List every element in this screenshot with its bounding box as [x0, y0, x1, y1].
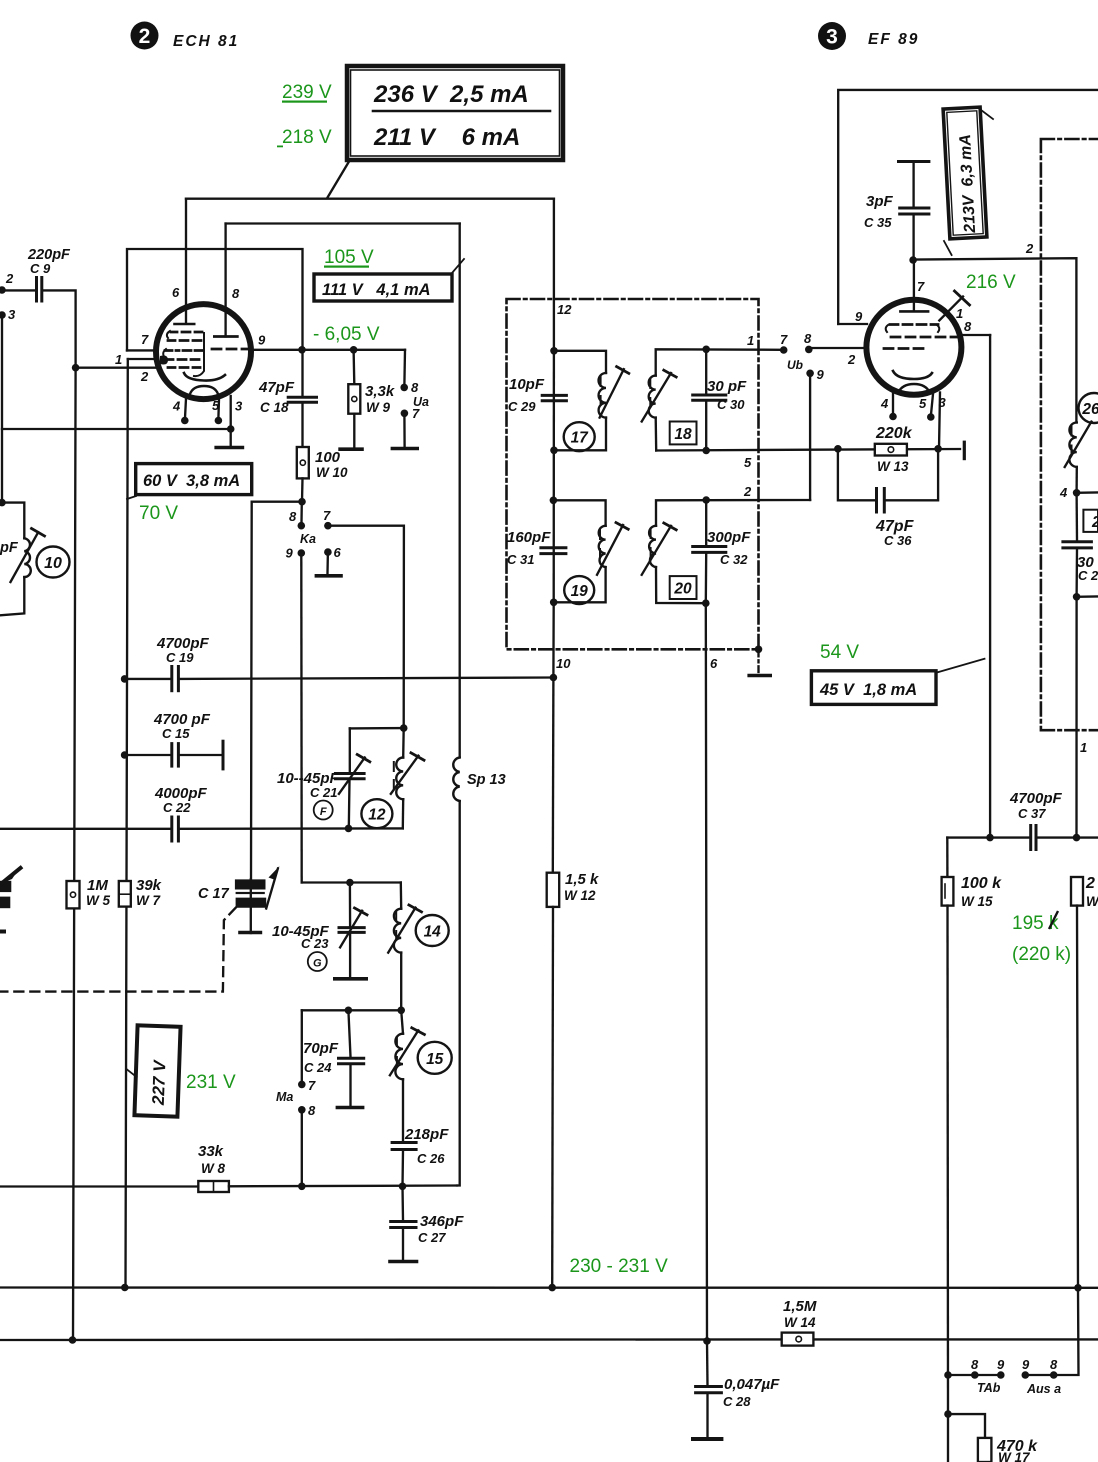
resistor W17 470k (clipped) — [948, 1414, 1038, 1462]
IF transformer shield box (dash-dot) — [507, 299, 759, 649]
svg-text:8: 8 — [1050, 1357, 1058, 1372]
wire: anode net to right IF box — [913, 258, 1076, 422]
svg-text:10: 10 — [556, 656, 571, 671]
wire: pin4 stub to right edge — [1077, 491, 1098, 494]
node circle F — [314, 801, 333, 820]
capacitor C27 346pF — [390, 1186, 464, 1261]
node box 20 — [670, 576, 697, 599]
IF2 shield box (dash-dot, right edge) — [1041, 139, 1098, 730]
capacitor C32 300pF — [693, 500, 751, 603]
svg-text:Ma: Ma — [276, 1090, 293, 1104]
ECH81 pin 3 lead — [230, 396, 232, 429]
node: coil 12 top — [400, 724, 408, 732]
node: tank19 top — [550, 497, 558, 505]
node: IF grid rail joins y=678 wire — [550, 674, 558, 682]
wire: IF primary drop x=553.9 — [553, 199, 555, 351]
node: C15 tap on grid rail — [121, 751, 129, 759]
svg-text:10: 10 — [44, 555, 62, 572]
svg-text:4: 4 — [880, 396, 889, 411]
svg-text:2: 2 — [140, 369, 149, 384]
svg-text:1: 1 — [115, 352, 122, 367]
coil 20 (adjustable) — [642, 500, 810, 603]
svg-text:1M: 1M — [87, 877, 108, 894]
svg-text:0,047µF: 0,047µF — [724, 1376, 780, 1393]
node circle G — [308, 952, 327, 971]
node: coil14 bottom / coil15 top — [397, 1007, 405, 1015]
svg-text:2: 2 — [1025, 241, 1034, 256]
svg-text:EF 89: EF 89 — [868, 31, 919, 48]
tube U3 EF89 envelope — [866, 300, 961, 395]
svg-text:W 9: W 9 — [366, 400, 390, 415]
svg-text:1: 1 — [747, 333, 754, 348]
terminal Ka 7/6 pair — [323, 508, 342, 560]
trimmer capacitor C23 10-45pF — [272, 883, 367, 979]
svg-text:20: 20 — [673, 581, 692, 598]
node box 22 (clipped) — [1083, 510, 1098, 532]
svg-text:231 V: 231 V — [186, 1072, 236, 1093]
svg-text:4700pF: 4700pF — [1009, 790, 1063, 807]
svg-text:7: 7 — [780, 332, 788, 347]
svg-text:Ub: Ub — [787, 358, 803, 372]
svg-text:2: 2 — [743, 484, 752, 499]
svg-text:17: 17 — [571, 430, 590, 447]
EF89 pin 7 lead + label — [913, 260, 915, 311]
capacitor C24 70pF — [303, 1010, 364, 1107]
node: C28 junction on bus2 — [703, 1337, 711, 1345]
svg-text:3,3k: 3,3k — [365, 383, 395, 400]
svg-text:30 pF: 30 pF — [707, 378, 747, 395]
wire: osc rail x=251.7 down to C17 — [250, 502, 253, 880]
svg-text:9: 9 — [855, 309, 863, 324]
svg-text:4: 4 — [1059, 485, 1068, 500]
wire: down to Ma terminal — [301, 1010, 303, 1081]
svg-text:9: 9 — [817, 367, 825, 382]
EF89 cathode arc — [893, 371, 932, 379]
capacitor on IF2 (clipped) — [1063, 493, 1098, 597]
svg-text:8: 8 — [411, 380, 419, 395]
resistor W10 100 — [297, 447, 348, 480]
wire: band section 2 top — [302, 1009, 401, 1011]
svg-text:100: 100 — [315, 449, 341, 466]
wire: bus1 (230V rail) — [0, 1286, 1098, 1289]
wire: Sp13 rail lower to W8 net corner — [457, 801, 460, 1186]
svg-text:18: 18 — [674, 426, 692, 443]
wire: W10 bottom to Ka junction — [301, 478, 304, 501]
svg-text:211 V 6 mA: 211 V 6 mA — [373, 124, 520, 151]
resistor W8 33k — [198, 1143, 229, 1192]
svg-text:54 V: 54 V — [820, 642, 859, 663]
coil 19 (adjustable) — [553, 500, 628, 602]
wire: down left continuation — [947, 1414, 949, 1462]
svg-text:7: 7 — [412, 406, 420, 421]
wire: to oscillator coil 10 — [2, 503, 24, 539]
ground: IF shield stub — [749, 646, 770, 676]
node: C26/C27 junction — [399, 1183, 407, 1191]
svg-text:12: 12 — [557, 302, 572, 317]
node: C32 bottom — [702, 599, 710, 607]
coil 18 (IF secondary 1, adjustable) — [642, 349, 781, 450]
svg-text:W 5: W 5 — [86, 893, 110, 908]
svg-text:70pF: 70pF — [303, 1040, 339, 1057]
wire: band section top corner — [302, 881, 401, 883]
terminal Ma (7/8 jack) — [276, 1078, 316, 1118]
svg-text:8: 8 — [232, 286, 240, 301]
wire: screen feed top right y=90 — [838, 90, 1098, 324]
node: switch row left junction — [944, 1371, 952, 1379]
svg-text:(220 k): (220 k) — [1012, 944, 1071, 965]
svg-text:C 27: C 27 — [418, 1230, 446, 1245]
svg-text:5: 5 — [919, 396, 927, 411]
resistor W12 1,5k — [547, 678, 599, 1288]
svg-text:19: 19 — [571, 583, 589, 600]
wire: C21 top link to coil 12 — [350, 727, 404, 730]
svg-text:F: F — [320, 806, 327, 818]
svg-text:W 7: W 7 — [136, 893, 161, 908]
svg-text:C 21: C 21 — [310, 785, 337, 800]
node: 470k tap — [944, 1410, 952, 1418]
svg-text:5: 5 — [744, 455, 752, 470]
EF89 pin 8 lead + label — [960, 334, 990, 336]
node circle 12 — [361, 799, 392, 828]
ECH81 screen divider — [194, 333, 204, 376]
svg-text:C 37: C 37 — [1018, 806, 1046, 821]
EF89 pin 9 lead + label — [838, 323, 867, 325]
svg-text:15: 15 — [426, 1051, 444, 1068]
svg-text:2: 2 — [1091, 514, 1098, 531]
svg-text:6: 6 — [172, 285, 180, 300]
svg-text:3: 3 — [939, 395, 947, 410]
svg-text:C 29: C 29 — [508, 399, 536, 414]
ECH81 pin 8 lead + label — [224, 224, 226, 337]
node: C21 bottom junction — [345, 825, 353, 833]
ground: Ua-7 — [392, 413, 417, 448]
svg-text:105 V: 105 V — [324, 247, 374, 268]
svg-text:C 2: C 2 — [1078, 568, 1098, 583]
node: W16 joins bus1 — [1074, 1284, 1082, 1292]
svg-text:9: 9 — [258, 333, 266, 348]
coil 17 (IF primary 1, adjustable) — [554, 351, 629, 451]
ECH81 triode grid dashes — [212, 348, 251, 351]
node: W13 left (grid return) — [834, 445, 842, 453]
capacitor C28 0,047uF — [693, 1341, 780, 1439]
svg-text:pF: pF — [0, 540, 19, 556]
capacitor C26 218pF — [392, 1126, 449, 1186]
svg-text:W 12: W 12 — [564, 888, 596, 903]
svg-text:1,5 k: 1,5 k — [565, 871, 599, 888]
resistor W15 100k — [942, 838, 1003, 909]
svg-text:W 13: W 13 — [877, 459, 909, 474]
coil 10 (oscillator tank, adjustable) — [0, 529, 45, 583]
node: Ma-8 joins W8 net — [298, 1183, 306, 1191]
svg-text:W: W — [1086, 894, 1098, 909]
ECH81 triode anode (pin 8 electrode) — [214, 335, 237, 338]
svg-text:14: 14 — [424, 924, 442, 941]
svg-text:7: 7 — [917, 279, 925, 294]
svg-text:111 V 4,1 mA: 111 V 4,1 mA — [322, 281, 431, 299]
EF89 pin 1 metallization arrow + label — [939, 291, 969, 321]
svg-text:C 30: C 30 — [717, 397, 745, 412]
wire: bus2 (AVC rail) — [0, 1338, 1098, 1341]
svg-text:C 36: C 36 — [884, 533, 912, 548]
measurement box 236V/211V — [347, 66, 563, 160]
svg-text:C 9: C 9 — [30, 261, 51, 276]
ground: ECH81 cathode — [216, 429, 242, 448]
wire: terminal 3 down left edge — [1, 315, 3, 503]
green annotation 239 V — [139, 82, 1071, 1277]
node circle 14 — [416, 915, 449, 946]
ECH81 pin 7 lead + label — [127, 349, 157, 351]
node: C30 top — [702, 346, 710, 354]
svg-text:C 22: C 22 — [163, 800, 191, 815]
tube U2 ECH81 envelope — [156, 304, 251, 399]
tube ECH81 header badge "2" — [131, 22, 159, 50]
EF89 grid rows (dashed) — [884, 325, 959, 349]
node: hexode grid net junction — [72, 364, 80, 372]
node: C32 top — [702, 496, 710, 504]
ECH81 pin 9 lead + label — [251, 349, 405, 351]
wire: coil 10 bottom return — [0, 577, 24, 615]
svg-text:8: 8 — [308, 1103, 316, 1118]
measurement box 45V — [811, 659, 984, 705]
wire: W8 net y=1186 — [0, 1186, 457, 1187]
EF89 pin 3 lead + label — [939, 393, 940, 449]
svg-text:8: 8 — [971, 1357, 979, 1372]
coil 21 (IF2 primary, adjustable, clipped) — [1065, 422, 1092, 493]
capacitor C29 10pF — [508, 376, 566, 414]
wire: W15 rail down to switch row — [946, 906, 949, 1415]
ECH81 cathode arc — [184, 373, 225, 381]
node: C30 bottom — [702, 447, 710, 455]
tube EF89 header badge "3" — [818, 22, 846, 50]
wire: input to C9 — [2, 289, 36, 291]
wire: junction branch to osc rail — [252, 501, 302, 503]
wire: IF primary rail x=554 — [553, 351, 556, 603]
svg-text:2: 2 — [5, 271, 14, 286]
capacitor C30 30pF — [693, 349, 747, 450]
svg-text:100 k: 100 k — [961, 875, 1002, 892]
svg-text:160pF: 160pF — [507, 529, 551, 546]
ECH81 hexode grid rows (dashed) — [163, 331, 202, 368]
ECH81 pin 4 lead + dot — [185, 399, 186, 419]
wire: pin5 net (tank18 bottom to W13/cathode) — [656, 449, 960, 451]
node circle 17 — [564, 422, 595, 451]
node box 18 — [670, 422, 697, 445]
ECH81 pin 2 lead + label — [76, 367, 157, 369]
wire: oscillator grid rail x=125.5 (pin1 down to bus1) — [126, 359, 128, 1288]
svg-text:39k: 39k — [136, 877, 162, 894]
terminal: cathode tap bar — [963, 442, 966, 458]
capacitor C9 220pF — [27, 247, 71, 301]
svg-text:218 V: 218 V — [282, 127, 332, 148]
terminal Ub (7/8 jack) — [780, 331, 825, 382]
node: tank17 bottom — [550, 447, 558, 455]
wire: C22 to oscillator tank bottom — [180, 827, 403, 830]
ground: Ka-6 — [316, 552, 341, 576]
svg-text:12: 12 — [368, 807, 386, 824]
svg-text:220k: 220k — [875, 425, 913, 442]
EF89 pin 5 lead + dot — [931, 394, 933, 415]
svg-text:60 V 3,8 mA: 60 V 3,8 mA — [143, 472, 240, 490]
svg-text:C 23: C 23 — [301, 936, 329, 951]
svg-text:70 V: 70 V — [139, 503, 178, 524]
capacitor C35 3pF with open top terminal — [864, 162, 929, 261]
EF89 pin 4 lead + dot — [892, 394, 894, 415]
capacitor C22 4000pF — [0, 785, 208, 841]
ECH81 pin 5 lead + dot — [217, 399, 220, 418]
node: tank17 top — [550, 347, 558, 355]
measurement box 60V — [127, 464, 252, 499]
wire: C9 to hexode grid corner — [42, 290, 76, 367]
svg-text:C 32: C 32 — [720, 552, 748, 567]
measurement box 213V 6,3mA (rotated) — [943, 107, 993, 255]
svg-text:9: 9 — [997, 1357, 1005, 1372]
svg-text:W 8: W 8 — [201, 1161, 225, 1176]
resistor W16 220k (clipped at edge) — [1071, 875, 1098, 909]
resistor W14 1,5M — [782, 1298, 817, 1346]
wire: anode drop to C37 — [989, 335, 991, 838]
wire: IF2 rail down to C37 — [1075, 597, 1077, 838]
node: anode/C35 junction — [909, 256, 917, 264]
svg-text:W 17: W 17 — [998, 1450, 1031, 1462]
wire: anode net y=199 (pin6 to IF primary) — [186, 198, 554, 200]
svg-text:C 31: C 31 — [507, 552, 534, 567]
measurement box 227V (rotated) — [126, 1025, 180, 1116]
svg-text:236 V 2,5 mA: 236 V 2,5 mA — [373, 81, 529, 108]
svg-text:47pF: 47pF — [258, 379, 295, 396]
EF89 heater arc — [898, 384, 930, 393]
svg-text:ECH 81: ECH 81 — [173, 33, 239, 50]
svg-text:216 V: 216 V — [966, 272, 1016, 293]
svg-text:6: 6 — [334, 545, 342, 560]
svg-text:C 19: C 19 — [166, 650, 194, 665]
capacitor C15 4700pF — [125, 711, 223, 769]
svg-text:W 14: W 14 — [784, 1315, 816, 1330]
ECH81 heater arc — [190, 386, 218, 394]
node: IF2 lower tap — [1073, 593, 1081, 601]
svg-text:4: 4 — [172, 399, 181, 414]
node: AVC rail joins bus2 — [69, 1336, 77, 1344]
svg-text:C 15: C 15 — [162, 726, 190, 741]
measurement box 111V — [314, 259, 464, 301]
resistor W5 1M — [67, 877, 111, 908]
EF89 pin 2 lead + label — [809, 347, 867, 349]
capacitor C18 47pF — [258, 350, 317, 447]
svg-text:346pF: 346pF — [420, 1213, 464, 1230]
coil 14 (adjustable) — [388, 883, 421, 1011]
node: Ka-8 junction — [298, 498, 306, 506]
wire: cathode net y=429 — [2, 428, 231, 430]
svg-text:230 - 231 V: 230 - 231 V — [570, 1256, 669, 1277]
node circle 10 — [37, 547, 70, 578]
svg-text:7: 7 — [323, 508, 331, 523]
node circle 19 — [564, 576, 594, 604]
terminal 2 (aerial input) — [0, 286, 6, 294]
svg-text:C 18: C 18 — [260, 400, 289, 415]
svg-text:218pF: 218pF — [404, 1126, 449, 1143]
svg-text:2: 2 — [139, 25, 151, 48]
tuning gang section (left edge, heavy) — [0, 866, 21, 932]
svg-text:26: 26 — [1081, 401, 1098, 418]
svg-text:7: 7 — [141, 332, 149, 347]
wire: Ka-9 down to band-switch section — [300, 553, 303, 883]
ground: W9 bottom — [340, 414, 362, 450]
ECH81 pin 6 lead + label — [185, 199, 187, 306]
EF89 anode electrode (pin 7) — [900, 310, 928, 313]
svg-text:1: 1 — [1080, 740, 1087, 755]
wire: IF grid rail below box — [552, 602, 555, 677]
wire: Aus-a return from bus1 — [1054, 1288, 1079, 1375]
svg-text:45 V 1,8 mA: 45 V 1,8 mA — [819, 681, 917, 699]
svg-text:3: 3 — [235, 399, 243, 414]
svg-text:10pF: 10pF — [509, 376, 545, 393]
svg-text:1: 1 — [956, 306, 963, 321]
coil 12 (oscillator, adjustable) — [391, 728, 424, 828]
variable capacitor C17 (tuning gang) — [198, 866, 280, 933]
svg-text:Ka: Ka — [300, 532, 316, 546]
wire: Ka-7 to oscillator top loop — [328, 526, 404, 728]
node: C19 tap on grid rail — [121, 675, 129, 683]
wire: Ub-9 to tank20 top — [809, 373, 811, 500]
trimmer capacitor C21 10-45pF — [277, 728, 370, 828]
svg-text:8: 8 — [964, 319, 972, 334]
ECH81 hexode anode (pin 6 electrode) — [175, 306, 195, 324]
terminal Ka (8/9 jack) — [286, 502, 317, 561]
wire: IF2 tap stub to right edge — [1077, 595, 1098, 598]
svg-text:3: 3 — [826, 26, 838, 49]
svg-text:- 6,05 V: - 6,05 V — [313, 324, 380, 345]
wire: Ma-8 down to W8 net — [301, 1110, 303, 1187]
svg-text:6: 6 — [710, 656, 718, 671]
node: C37/anode junction — [986, 834, 994, 842]
svg-text:W 10: W 10 — [316, 465, 348, 480]
svg-text:W 15: W 15 — [961, 894, 993, 909]
ECH81 cathode blob at pin 2 entry — [160, 356, 168, 365]
node: C37 right junction — [1073, 834, 1081, 842]
black slash after 195 k — [1049, 911, 1058, 929]
capacitor C37 4700pF — [947, 790, 1098, 850]
svg-text:239 V: 239 V — [282, 82, 332, 103]
svg-text:G: G — [313, 958, 322, 970]
wire: W16 rail to bus1 — [1077, 906, 1078, 1288]
node: C18/pin9 junction — [298, 346, 306, 354]
svg-text:Sp 13: Sp 13 — [467, 772, 506, 788]
wire: AVC rail x=75.6 down through W5 to bus2 — [73, 368, 76, 1340]
node: pin4 tap — [1073, 489, 1081, 497]
node: pin3 cathode junction — [227, 425, 235, 433]
node: C23 top — [346, 879, 354, 887]
svg-text:8: 8 — [289, 509, 297, 524]
node: C24 top — [345, 1007, 353, 1015]
svg-text:3pF: 3pF — [866, 193, 894, 210]
dashed gang coupling link — [0, 908, 236, 992]
node: left edge osc tank junction — [0, 499, 6, 507]
svg-text:2: 2 — [847, 352, 856, 367]
svg-text:TAb: TAb — [977, 1381, 1001, 1395]
svg-text:C 35: C 35 — [864, 215, 892, 230]
svg-text:2: 2 — [1085, 875, 1095, 892]
wire: triode grid loop y=249 (pin7 to C18 top) — [127, 249, 303, 350]
coil Sp13 — [453, 758, 505, 802]
svg-text:300pF: 300pF — [707, 529, 751, 546]
svg-text:227 V: 227 V — [149, 1059, 170, 1107]
ECH81 pin 1 lead + label — [128, 358, 156, 360]
node: grid rail joins bus1 — [121, 1284, 129, 1292]
terminal 3 — [0, 311, 6, 319]
pointer line from 236V box to anode wire — [328, 162, 350, 198]
node circle 21 (clipped) — [1079, 393, 1098, 423]
svg-text:3: 3 — [8, 307, 16, 322]
terminal Ua (8/7 jack) — [400, 350, 429, 421]
